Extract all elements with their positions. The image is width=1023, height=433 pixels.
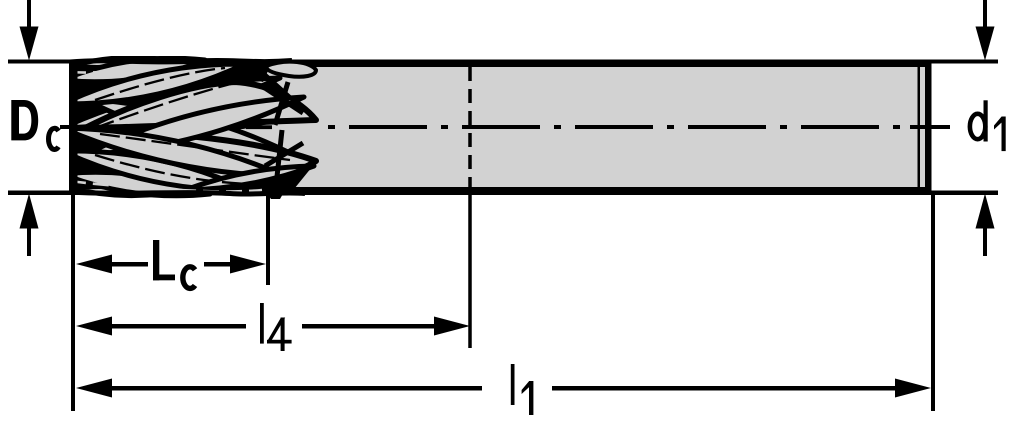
flute big lower leaf bbox=[85, 131, 316, 180]
flute loop left wedge bbox=[242, 60, 272, 82]
flute lower shingle 1 bbox=[62, 172, 210, 196]
Lc dimension line with arrows bbox=[76, 255, 266, 274]
flute section wavy bottom edge bbox=[70, 192, 305, 194]
flute under-shingle lower cross bbox=[84, 99, 300, 158]
centerline stub at flute tips bbox=[246, 125, 272, 129]
l1 dimension line with arrows bbox=[76, 379, 931, 398]
flute lower tip X stroke b bbox=[276, 130, 282, 186]
shank end face inner line bbox=[918, 65, 921, 189]
label Dc : subscript c bbox=[48, 128, 58, 149]
body top outline bbox=[73, 63, 931, 67]
flute upper shingle 2 bbox=[62, 64, 245, 104]
flute gray sliver u1 bbox=[70, 64, 165, 73]
Dc leader tick bbox=[60, 125, 86, 129]
top extension line bbox=[8, 60, 998, 64]
label Lc : letter L bbox=[153, 240, 175, 280]
flute thin line t1 bbox=[95, 68, 225, 100]
flute lower shingle 3 bbox=[62, 128, 285, 176]
flute left edge band bbox=[69, 60, 78, 195]
label l4 : subscript 4 bbox=[267, 318, 292, 352]
Lc right extension line bbox=[266, 195, 270, 285]
label Dc : letter D bbox=[11, 100, 38, 140]
dashed vertical line at l4 bbox=[468, 67, 472, 195]
flute big upper leaf bbox=[85, 82, 316, 128]
flute tip wedge gray fill bbox=[238, 114, 320, 166]
flute upper shingle 4 bbox=[84, 97, 304, 155]
solid vertical line below l4 bbox=[468, 195, 472, 348]
flute dark underlayer bbox=[69, 60, 316, 194]
flute upper shingle 1 bbox=[62, 58, 205, 82]
shank right edge bbox=[925, 63, 932, 192]
top-right arrow bbox=[976, 0, 995, 61]
cutter body (shank cylinder) bbox=[73, 63, 931, 191]
flute under-shingle upper cross bbox=[62, 78, 280, 128]
bottom-left up arrow bbox=[20, 194, 39, 257]
label l4 : letter l bbox=[260, 303, 264, 344]
flute bottom wedge bbox=[266, 192, 284, 206]
centerline (dash-dot) bbox=[66, 125, 950, 129]
flute lower tip X stroke a bbox=[265, 143, 303, 166]
flute upper shingle 0 bbox=[70, 58, 160, 68]
flute lower shingle 2 bbox=[62, 151, 248, 190]
bottom extension line bbox=[8, 191, 998, 196]
flute top loop bbox=[266, 62, 316, 77]
flute thin line t3 bbox=[100, 134, 290, 160]
flute upper tip X stroke a bbox=[265, 88, 303, 113]
bottom-right up arrow bbox=[976, 194, 995, 257]
flute lower shingle 5 bbox=[185, 166, 314, 190]
flute gray sliver l3 bbox=[180, 190, 262, 192]
label l1 : letter l bbox=[511, 364, 515, 405]
label l1 : subscript 1 bbox=[522, 381, 534, 415]
l1 right extension line bbox=[931, 195, 935, 411]
label d1 : letter d bbox=[970, 100, 988, 141]
Lc left extension line bbox=[71, 195, 75, 411]
flute thin line t4 bbox=[95, 155, 250, 184]
label Lc : subscript c bbox=[183, 267, 195, 289]
centerline tick at right end bbox=[910, 125, 946, 129]
l4 dimension line with arrows bbox=[76, 317, 470, 336]
flute thin line t2 bbox=[95, 78, 255, 128]
top-left arrow bbox=[20, 0, 39, 61]
label d1 : subscript 1 bbox=[994, 117, 1006, 152]
body bottom outline bbox=[73, 187, 931, 191]
flute upper tip X stroke b bbox=[275, 82, 288, 125]
flute section wavy top edge bbox=[70, 60, 292, 62]
flute gray sliver l1 bbox=[70, 181, 165, 189]
flute lower shingle 0 bbox=[70, 186, 160, 195]
